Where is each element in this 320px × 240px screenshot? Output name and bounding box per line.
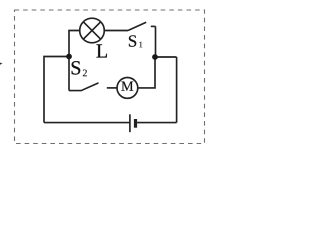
lamp L1 (80, 18, 105, 43)
junction node A (66, 54, 72, 60)
wire battery negative plate to bottom right corner (137, 122, 177, 124)
wire right side down to bottom (176, 57, 178, 123)
stray mark at left edge (0, 63, 3, 65)
wire bottom left to battery positive plate (44, 122, 130, 124)
label M (motor) (121, 82, 133, 91)
wire motor M right lead up to node B (138, 57, 155, 88)
switch S1 (open blade and fixed contact) (128, 22, 156, 30)
wire node A to lamp L left lead (69, 31, 80, 58)
junction node B (152, 54, 158, 60)
wire node B to right outer corner (155, 56, 177, 58)
label S2 (72, 61, 87, 76)
battery BT1 (130, 114, 136, 132)
wire switch S1 contact down to node B (155, 26, 157, 57)
wire switch S2 to motor M left lead (107, 87, 117, 89)
label L (96, 44, 106, 57)
wire node A down to switch S2 pivot (68, 57, 70, 91)
wire node A to left outer corner and down (44, 57, 69, 123)
label S1 (129, 35, 142, 47)
switch S2 (stub and open blade) (69, 83, 99, 91)
motor M1 (117, 78, 138, 99)
wire lamp L to switch S1 (104, 30, 128, 32)
